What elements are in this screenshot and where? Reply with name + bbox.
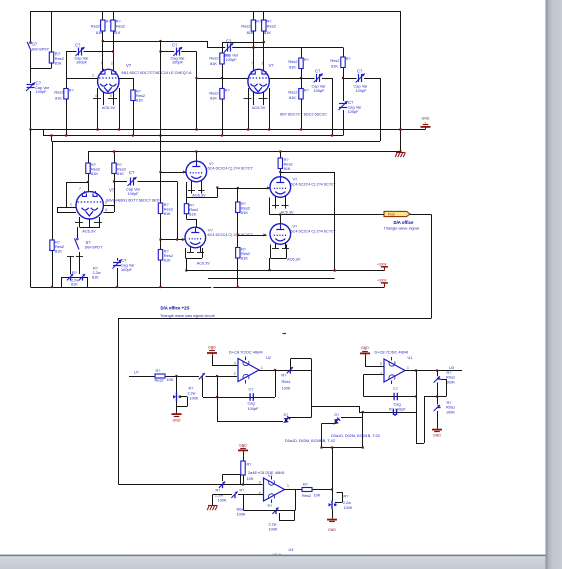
svg-text:R?: R? — [156, 369, 161, 373]
svg-text:D+C8 7C/DC 4I8/4I: D+C8 7C/DC 4I8/4I — [375, 349, 409, 354]
junction — [87, 181, 89, 183]
wire gap — [211, 286, 213, 288]
tube V5 — [185, 227, 206, 248]
wire VC grid loop — [57, 208, 76, 213]
capacitor C6 var — [356, 74, 365, 83]
trimmer R25 — [287, 367, 293, 374]
resistor R10 — [220, 89, 224, 100]
svg-text:Triangle wave signal: Triangle wave signal — [384, 226, 419, 231]
svg-text:6AV(N4)6N1 6DT7 6EDC7 6ED7: 6AV(N4)6N1 6DT7 6EDC7 6ED7 — [106, 199, 161, 203]
svg-text:100K: 100K — [190, 397, 199, 401]
junction — [242, 483, 244, 485]
tube V3 — [76, 191, 103, 219]
svg-text:100pF: 100pF — [76, 60, 88, 65]
svg-text:U1: U1 — [408, 356, 413, 360]
wire DA route — [410, 215, 432, 319]
junction — [216, 396, 218, 398]
label C6 — [354, 69, 369, 93]
svg-text:100pF: 100pF — [128, 191, 140, 196]
label input port — [129, 371, 139, 377]
wire bus3 — [52, 136, 381, 142]
wire S2 contacts — [71, 252, 80, 274]
wire input — [129, 376, 237, 378]
junction — [279, 213, 281, 215]
svg-text:Pout: Pout — [388, 212, 395, 216]
svg-text:81K: 81K — [241, 210, 248, 215]
wire out R11 — [301, 48, 303, 130]
page edge bottom — [0, 555, 546, 569]
ground GND2 — [207, 346, 217, 356]
junction — [279, 150, 281, 152]
svg-text:R?: R? — [304, 58, 309, 62]
svg-text:C?: C? — [249, 388, 254, 392]
label RP1 — [71, 271, 79, 286]
wire D2 link — [322, 418, 363, 448]
wire VC cathode sw — [77, 227, 79, 239]
wire U3 bias — [243, 453, 245, 485]
label C2 — [75, 43, 90, 65]
junction — [279, 171, 281, 173]
wire tnet2 drop — [437, 397, 439, 428]
svg-text:7: 7 — [251, 62, 253, 66]
svg-text:GND: GND — [433, 434, 441, 438]
switch S2 — [75, 238, 80, 249]
label V5 heater — [197, 262, 211, 266]
pot R24 — [173, 393, 181, 402]
wire top bus — [31, 11, 401, 13]
label V2 heater — [252, 105, 266, 110]
svg-text:81K: 81K — [289, 65, 296, 70]
svg-text:R?: R? — [72, 271, 77, 275]
wire pot3 — [332, 490, 334, 502]
page edge right — [546, 0, 562, 569]
resistor R8 — [262, 20, 266, 31]
svg-text:U3: U3 — [449, 366, 454, 370]
svg-text:100K: 100K — [237, 513, 246, 517]
svg-text:100pF: 100pF — [348, 109, 360, 114]
tube V7 pins — [271, 243, 287, 259]
tube V2 pins — [249, 88, 270, 130]
svg-text:GND: GND — [173, 419, 181, 423]
junction — [97, 128, 99, 130]
svg-text:SW-SPDT: SW-SPDT — [85, 245, 103, 250]
junction — [65, 134, 67, 136]
junction — [112, 50, 114, 52]
svg-text:81K: 81K — [91, 171, 98, 176]
junction — [399, 150, 401, 152]
heater ticks V5 — [187, 252, 204, 254]
wire VC plate link — [66, 182, 88, 207]
capacitor C10 — [250, 393, 253, 401]
label V1 heater — [102, 105, 116, 110]
wire DA out — [269, 214, 384, 216]
op-amp U1 — [384, 357, 405, 384]
svg-text:3: 3 — [380, 362, 382, 366]
junction — [185, 269, 187, 271]
label V3 heater — [82, 229, 96, 234]
junction — [221, 77, 223, 79]
junction — [113, 150, 115, 152]
junction — [300, 128, 302, 130]
pin labels V3 — [70, 187, 107, 212]
label R12 — [288, 89, 308, 101]
junction — [237, 286, 239, 288]
tube V4 — [186, 161, 207, 182]
junction — [399, 128, 401, 130]
svg-text:10K: 10K — [167, 377, 174, 382]
junction — [159, 238, 161, 240]
power +300 A — [377, 262, 388, 270]
tube V6 pins — [270, 196, 286, 215]
op-amp U3 — [264, 476, 285, 503]
wire U2 fb — [203, 370, 276, 398]
label R20 — [241, 248, 250, 261]
wire V6 plate — [280, 152, 282, 177]
wire pot1 — [176, 376, 178, 412]
svg-text:5: 5 — [110, 94, 112, 98]
wire U1 fb — [364, 371, 417, 397]
svg-text:Res2: Res2 — [54, 90, 63, 95]
junction — [399, 128, 401, 130]
label V1 — [122, 63, 193, 75]
label V5 — [208, 229, 254, 238]
wire couple A — [103, 41, 254, 48]
label D1 — [284, 413, 289, 417]
wire pot row — [62, 277, 88, 279]
svg-text:81K: 81K — [92, 275, 99, 279]
label S1 — [32, 42, 50, 52]
label R27 — [446, 401, 455, 414]
resistor R28 — [241, 461, 245, 475]
svg-text:GND: GND — [328, 528, 336, 532]
wire plate B1 — [253, 11, 255, 71]
svg-text:R?: R? — [346, 57, 351, 61]
wire right frame — [400, 11, 402, 153]
label section title — [161, 306, 190, 311]
resistor R16 — [112, 163, 116, 174]
wire U2 pin3 — [212, 356, 238, 366]
svg-text:100pF: 100pF — [314, 88, 326, 93]
label U1 — [375, 349, 413, 360]
svg-text:R?: R? — [240, 489, 245, 493]
svg-text:100K: 100K — [344, 506, 353, 510]
ground GND6 — [327, 517, 337, 532]
svg-text:2: 2 — [234, 372, 236, 376]
label R21 — [284, 158, 293, 171]
wire VC right pins — [103, 206, 114, 213]
heater ticks V6 — [272, 205, 289, 207]
label R10 — [209, 89, 229, 101]
svg-text:100pF: 100pF — [172, 60, 184, 65]
junction — [415, 369, 417, 371]
svg-text:V?: V? — [268, 474, 272, 478]
label R5 — [54, 89, 73, 101]
svg-text:81K: 81K — [55, 61, 62, 66]
svg-text:100K: 100K — [446, 380, 455, 384]
resistor R21 — [278, 158, 282, 169]
svg-text:1: 1 — [261, 366, 263, 370]
tube V1 pins — [98, 88, 120, 130]
label V2 — [269, 63, 275, 68]
junction — [263, 41, 265, 43]
wire R31 loop — [279, 511, 295, 521]
junction — [118, 128, 120, 130]
resistor R17 — [158, 203, 162, 214]
label D2 — [335, 413, 340, 417]
svg-text:7: 7 — [79, 187, 81, 191]
label V6 — [291, 178, 337, 187]
junction — [50, 134, 52, 136]
svg-text:Res2: Res2 — [288, 90, 297, 95]
label C7 — [348, 100, 363, 114]
svg-text:Res2: Res2 — [91, 24, 100, 29]
wire U3 out — [285, 489, 333, 491]
junction — [300, 77, 302, 79]
resistor R2 — [49, 52, 53, 63]
label R6 — [136, 90, 145, 103]
svg-text:AC6.3V: AC6.3V — [287, 257, 301, 262]
wire grid A res — [66, 78, 68, 136]
wire left input — [30, 11, 32, 130]
svg-text:2: 2 — [105, 201, 107, 205]
resistor R22 — [155, 374, 165, 378]
power earth U3 — [207, 506, 217, 511]
heater ticks V1 — [93, 94, 117, 99]
junction — [247, 128, 249, 130]
wire rail 278 — [208, 278, 335, 280]
svg-text:1: 1 — [287, 484, 289, 488]
trimmer RP2 — [79, 274, 85, 281]
wire plate A1 — [102, 11, 104, 71]
capacitor C8 var — [128, 177, 137, 186]
label RP2 — [92, 267, 101, 280]
wire quad Rchain — [237, 188, 239, 287]
svg-text:V?: V? — [293, 225, 298, 229]
junction — [51, 286, 53, 288]
wire grid A2 — [66, 52, 98, 79]
svg-text:C?: C? — [315, 69, 321, 74]
capacitor C4 var — [173, 47, 182, 56]
svg-text:81K: 81K — [210, 96, 217, 101]
resistor R19 — [236, 202, 240, 213]
svg-text:R?: R? — [268, 504, 273, 508]
svg-text:C?: C? — [172, 43, 178, 48]
label D11 — [285, 439, 335, 443]
label R18 — [164, 250, 173, 263]
svg-text:6C4 6C2C4 C) 2?4 6C?CT: 6C4 6C2C4 C) 2?4 6C?CT — [291, 230, 337, 234]
label R33 — [343, 495, 353, 511]
junction — [331, 488, 333, 490]
junction — [221, 134, 223, 136]
wire bus1 — [31, 129, 426, 131]
svg-text:AC6.3V: AC6.3V — [197, 262, 211, 266]
svg-text:C?: C? — [129, 170, 135, 175]
label section sub — [160, 313, 215, 318]
svg-text:D0a1D, D02M, BCM1B, T-02: D0a1D, D02M, BCM1B, T-02 — [331, 434, 380, 438]
svg-text:Res2: Res2 — [267, 24, 276, 29]
svg-text:GND: GND — [361, 346, 369, 350]
wire U1 minus — [364, 375, 385, 397]
ground GND1 — [172, 412, 182, 423]
junction — [176, 238, 178, 240]
resistor R15 — [86, 163, 90, 174]
wire plate B2 — [263, 11, 265, 71]
label U3net — [449, 366, 454, 370]
tube V7 — [270, 224, 291, 245]
label R31 — [268, 504, 278, 532]
wire mid right vert — [280, 172, 334, 270]
wire R29 loop — [223, 475, 241, 485]
trimmer R27 — [434, 405, 441, 411]
svg-text:Res2: Res2 — [241, 24, 250, 29]
capacitor C5 var — [314, 74, 323, 83]
junction — [334, 269, 336, 271]
svg-text:2a4E+C8 DDE 4I8/4I: 2a4E+C8 DDE 4I8/4I — [248, 470, 284, 475]
svg-text:81K: 81K — [71, 282, 78, 286]
wire route2 — [291, 359, 417, 413]
svg-text:U3: U3 — [289, 548, 294, 552]
heater ticks V2 — [244, 98, 268, 100]
junction — [216, 186, 218, 188]
power earth mid — [395, 153, 405, 158]
junction — [268, 128, 270, 130]
pin labels V2 — [251, 62, 264, 66]
junction — [216, 375, 218, 377]
wire mid left border — [30, 130, 32, 288]
junction — [113, 180, 115, 182]
svg-text:D?: D? — [284, 413, 289, 417]
wire D1 top — [289, 406, 312, 418]
label R28 — [247, 463, 254, 482]
junction — [159, 286, 161, 288]
wire out top — [253, 47, 343, 49]
label R19 — [241, 202, 250, 215]
label U2A — [273, 553, 282, 557]
tube V2 — [248, 69, 269, 94]
svg-text:3: 3 — [234, 361, 236, 365]
label R9 — [209, 54, 229, 67]
label R14 — [55, 241, 64, 254]
capacitor C2 var — [76, 47, 85, 56]
svg-text:100K: 100K — [282, 387, 291, 391]
wire clip mid — [362, 412, 364, 448]
junction — [342, 77, 344, 79]
svg-text:81K: 81K — [114, 30, 121, 35]
svg-text:D0a1D, D02M, BCMMB, T-02: D0a1D, D02M, BCMMB, T-02 — [285, 439, 335, 443]
junction — [159, 40, 161, 42]
wire R2 drop — [31, 11, 52, 69]
ground GND5 — [238, 444, 248, 454]
svg-text:AC6.3V: AC6.3V — [192, 193, 206, 198]
capacitor C12 — [393, 409, 396, 416]
wire RC2 — [114, 152, 116, 213]
wire pot3 gnd — [332, 509, 334, 517]
label V3 — [106, 188, 161, 203]
svg-text:Res2: Res2 — [302, 493, 311, 498]
svg-text:R?: R? — [189, 387, 194, 391]
resistor R9 — [220, 53, 224, 64]
wire rail 287 — [31, 287, 385, 289]
svg-text:Res2: Res2 — [116, 24, 125, 29]
tube V3 pins — [80, 217, 100, 228]
svg-text:100pF: 100pF — [121, 267, 133, 272]
junction — [331, 134, 333, 136]
capacitor C1 var — [26, 83, 35, 92]
svg-text:Triangle wave saw signal circu: Triangle wave saw signal circuit — [160, 313, 215, 318]
wire U3 fb rail — [244, 490, 296, 511]
svg-text:C?: C? — [357, 69, 363, 74]
label C10 — [248, 388, 260, 411]
wire V7 plate — [280, 215, 282, 224]
wire V7 grid — [238, 235, 266, 237]
wire plate A2 — [113, 11, 115, 71]
junction — [415, 395, 417, 397]
svg-text:+300V: +300V — [377, 278, 387, 282]
wire route bottom — [119, 484, 263, 486]
junction — [274, 369, 276, 371]
svg-text:81K: 81K — [164, 258, 171, 263]
label R22 — [155, 369, 174, 383]
tube V1 — [98, 69, 119, 94]
svg-text:R0a1: R0a1 — [446, 376, 455, 380]
label U2 — [229, 349, 271, 360]
junction — [195, 77, 197, 79]
trimmer R29 — [219, 482, 225, 489]
label D12 — [331, 434, 380, 438]
junction — [252, 46, 254, 48]
svg-text:AC6.3V: AC6.3V — [102, 105, 116, 110]
tube V6 — [270, 177, 291, 198]
junction — [436, 395, 438, 397]
wire out cap2 — [343, 78, 381, 141]
svg-text:81K: 81K — [189, 212, 196, 217]
wire V4 grid — [161, 172, 187, 174]
label V2 type — [280, 113, 327, 117]
svg-text:R?: R? — [225, 89, 230, 93]
svg-text:R0a1: R0a1 — [446, 406, 455, 410]
svg-text:C?: C? — [75, 43, 81, 48]
wire U2 out — [259, 370, 311, 372]
svg-text:2.2w: 2.2w — [343, 501, 351, 505]
svg-text:R?: R? — [216, 489, 221, 493]
wire tnet1 loop — [438, 379, 447, 397]
label R23 — [188, 387, 199, 401]
svg-text:R?: R? — [106, 20, 111, 24]
wire U1 out — [405, 370, 462, 372]
svg-text:R?: R? — [93, 267, 98, 271]
resistor R7 — [251, 20, 255, 31]
arrow V5 — [182, 238, 186, 241]
resistor R32 — [302, 488, 312, 492]
label R34 — [189, 204, 198, 217]
wire cap9 drop — [117, 258, 119, 287]
wire RC1 — [88, 152, 90, 192]
label V7 heater — [287, 257, 301, 262]
trimmer R31 — [272, 508, 278, 515]
svg-text:6N1 6DC7 6DC7CT/6DC24 LE CHEQ?: 6N1 6DC7 6DC7CT/6DC24 LE CHEQ?-A — [122, 71, 193, 75]
trimmer R26 — [434, 376, 441, 382]
junction — [159, 171, 161, 173]
label R30 — [237, 489, 246, 517]
contact ticks — [67, 256, 83, 258]
junction — [175, 375, 177, 377]
label R32 — [302, 483, 321, 498]
wire tnet1 — [437, 371, 439, 377]
wire grid B divider — [222, 42, 264, 136]
svg-text:81K: 81K — [210, 61, 217, 66]
trimmer RP1 — [67, 274, 73, 281]
junction — [116, 286, 118, 288]
